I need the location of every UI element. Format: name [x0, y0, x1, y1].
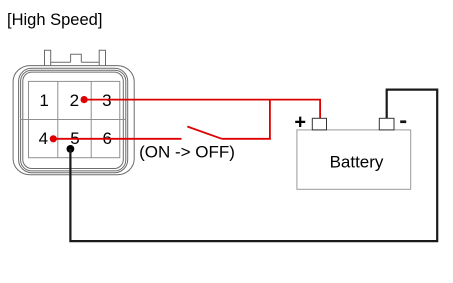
svg-text:2: 2: [70, 91, 79, 110]
connector shell line 3: [21, 70, 126, 171]
pin grid outer box: [29, 81, 120, 157]
connector shell line 4: [23, 72, 124, 168]
connector latch tab middle: [71, 54, 82, 62]
battery + terminal: [312, 118, 326, 130]
grid column divider 2: [90, 81, 92, 157]
connector mounting tab right: [99, 50, 105, 65]
svg-text:Battery: Battery: [330, 153, 384, 172]
battery BT1 body: [297, 130, 411, 189]
pin 2 node dot (red): [81, 96, 88, 103]
grid column divider 1: [57, 81, 59, 157]
pin 4 node dot (red): [50, 135, 57, 142]
connector mounting tab left: [45, 50, 51, 65]
wire pin5 to battery - terminal (black): [70, 90, 437, 242]
svg-text:(ON -> OFF): (ON -> OFF): [139, 143, 235, 162]
connector top bar left segment: [51, 61, 71, 63]
grid middle row divider: [21, 119, 126, 121]
connector shell line 2: [19, 68, 128, 172]
connector J1 outer shell: [13, 66, 134, 175]
svg-text:1: 1: [39, 91, 48, 110]
wire pin4 to switch (red): [53, 138, 181, 140]
svg-text:4: 4: [39, 129, 48, 148]
switch SW1 open blade: [187, 127, 222, 139]
svg-text:+: +: [294, 112, 306, 134]
pin 5 node dot (black): [67, 145, 75, 153]
wire pin2 to battery + terminal (red): [84, 100, 320, 119]
wire switch to junction (red): [222, 138, 271, 140]
svg-text:[High Speed]: [High Speed]: [7, 11, 102, 29]
connector top bar right segment: [81, 61, 99, 63]
wire junction vertical drop (red): [269, 100, 271, 140]
battery - terminal: [379, 118, 394, 130]
battery - polarity label: [400, 120, 406, 123]
